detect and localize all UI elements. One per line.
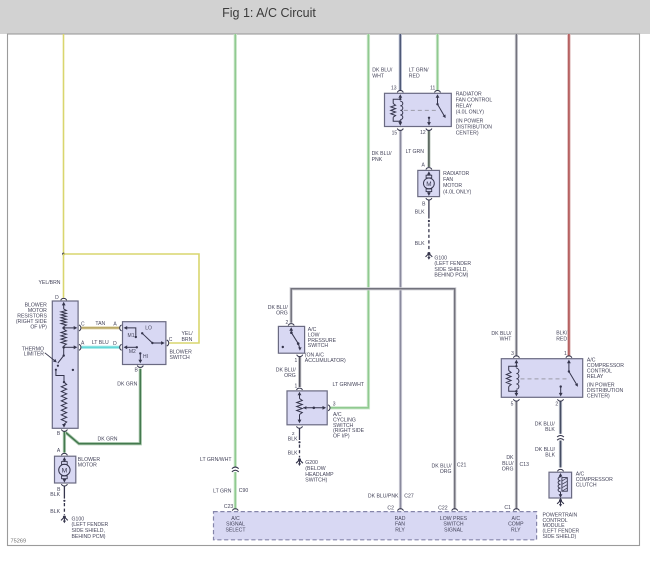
blower motor label [78, 457, 101, 468]
svg-text:MOTOR: MOTOR [78, 463, 97, 469]
svg-text:(IN POWER: (IN POWER [456, 119, 484, 125]
svg-text:3: 3 [333, 401, 336, 407]
compressor relay pin 5 [511, 399, 520, 407]
fan relay coil [391, 98, 403, 126]
svg-text:75269: 75269 [11, 539, 27, 545]
svg-text:PNK: PNK [372, 157, 383, 163]
ground G200 [296, 458, 334, 483]
cycling switch wiper to pin 3 [303, 401, 336, 410]
svg-text:DK GRN: DK GRN [117, 381, 137, 387]
fan relay pin 12 [420, 129, 432, 136]
svg-text:1: 1 [564, 351, 567, 357]
svg-text:RLY: RLY [395, 528, 405, 534]
svg-text:FAN CONTROL: FAN CONTROL [456, 97, 493, 103]
svg-text:ORG: ORG [502, 467, 514, 473]
svg-text:TAN: TAN [95, 321, 105, 327]
svg-text:BEHIND PCM): BEHIND PCM) [434, 273, 468, 279]
A/C compressor clutch label [576, 472, 613, 489]
wire LT GRN relay 12 to fan motor A [406, 131, 429, 167]
svg-text:RADIATOR: RADIATOR [443, 171, 469, 177]
inline connector C90 [200, 457, 248, 495]
A/C compressor clutch (box) [549, 469, 572, 498]
resistor element upper [61, 309, 66, 327]
low pressure switch blade [282, 331, 302, 350]
PCM connector C23 [224, 504, 246, 534]
radiator fan control relay label [456, 91, 493, 136]
cycling switch sensing element [297, 399, 303, 424]
cycling switch pin 1 [297, 388, 303, 398]
resistors terminal B [57, 429, 68, 437]
A/C compressor control relay (box) [501, 359, 582, 398]
svg-text:YEL/BRN: YEL/BRN [39, 280, 61, 286]
svg-text:RELAY: RELAY [456, 104, 473, 110]
svg-text:C22: C22 [438, 506, 448, 512]
svg-text:BLK: BLK [545, 427, 555, 433]
svg-text:LO: LO [145, 326, 152, 332]
compressor relay switch 1-2 [559, 351, 578, 396]
svg-text:2: 2 [555, 401, 558, 407]
thermo limiter [55, 347, 74, 383]
PCM connector C2 [395, 509, 406, 534]
svg-text:11: 11 [430, 86, 435, 92]
low pressure switch pin 2 [286, 320, 295, 332]
wire DK BLU/ORG low pressure 1 to cycling 1 [276, 357, 300, 390]
svg-text:(4.0L ONLY): (4.0L ONLY) [456, 110, 485, 116]
svg-text:Fig 1: A/C Circuit: Fig 1: A/C Circuit [222, 6, 316, 20]
powertrain control module label [543, 512, 580, 540]
svg-text:BLK: BLK [288, 451, 298, 457]
radiator fan motor (box) [418, 162, 440, 196]
wire BLK cycling switch 2 to ground [288, 428, 301, 457]
svg-text:SWITCH): SWITCH) [305, 478, 327, 484]
blower switch (box) [123, 322, 166, 365]
svg-text:DK GRN: DK GRN [98, 437, 118, 443]
svg-text:13: 13 [391, 86, 397, 92]
svg-text:RELAY: RELAY [587, 374, 604, 380]
blower switch terminal A [113, 321, 137, 339]
svg-text:M1: M1 [128, 333, 135, 339]
svg-text:WHT: WHT [372, 74, 385, 80]
svg-text:LT GRN/WHT: LT GRN/WHT [333, 382, 365, 388]
wire DK BLU/BLK compressor relay 2 to clutch [535, 401, 561, 467]
blower motor resistors R (box) [52, 295, 78, 429]
A/C compressor control relay label [587, 358, 624, 400]
PCM connector C1 [508, 509, 524, 534]
ground G100 left [61, 516, 109, 540]
header bar [0, 0, 650, 34]
fan relay switch 11-12 [427, 86, 446, 126]
A/C low pressure switch (box) [278, 326, 304, 353]
svg-text:2: 2 [286, 320, 289, 326]
wire DK BLU/WHT to compressor relay 3 [491, 34, 516, 356]
compressor relay coil [506, 365, 519, 396]
svg-text:M: M [62, 467, 68, 474]
low pressure switch pin 1 [297, 355, 303, 357]
svg-text:C27: C27 [404, 493, 414, 499]
radiator fan motor terminal B [426, 198, 432, 200]
blower switch terminal B [134, 366, 143, 374]
node tap A [62, 344, 81, 350]
svg-text:ORG: ORG [276, 311, 288, 317]
resistor element middle [61, 329, 66, 346]
svg-text:LIMITER: LIMITER [24, 352, 45, 358]
svg-text:5: 5 [511, 401, 514, 407]
blower switch terminal D [113, 341, 138, 355]
blower switch blade LO-HI [138, 326, 164, 364]
svg-text:RED: RED [556, 336, 567, 342]
svg-text:(4.0L ONLY): (4.0L ONLY) [443, 190, 472, 196]
svg-text:CENTER): CENTER) [456, 131, 479, 137]
fan relay actuation dashed line [404, 109, 438, 111]
svg-text:C23: C23 [224, 504, 234, 510]
inline connector on clutch wire [557, 435, 564, 440]
svg-text:C: C [81, 321, 85, 327]
wire YEL/BRN vertical from top [63, 34, 65, 254]
blower motor resistors label [16, 303, 48, 331]
svg-text:M2: M2 [129, 349, 136, 355]
svg-text:OF I/P): OF I/P) [30, 324, 47, 330]
svg-text:RADIATOR: RADIATOR [456, 91, 482, 97]
svg-text:CLUTCH: CLUTCH [576, 483, 597, 489]
svg-text:D: D [55, 295, 59, 301]
wire DK GRN resistors B to blower motor A [63, 431, 66, 452]
wire BLK blower motor B to ground G100 [50, 486, 65, 515]
blower motor (box) [55, 448, 76, 483]
clutch coil [558, 477, 567, 498]
svg-text:BLK: BLK [50, 509, 60, 515]
wire DK GRN resistors B to blower switch B [64, 369, 140, 444]
svg-text:BLK: BLK [50, 492, 60, 498]
svg-text:SELECT: SELECT [226, 528, 247, 534]
svg-text:RLY: RLY [511, 528, 521, 534]
drawing number 75269 [11, 539, 27, 545]
compressor relay pin 3 [511, 351, 519, 366]
compressor relay pin 2 [555, 399, 563, 407]
svg-text:BLK: BLK [415, 209, 425, 215]
svg-text:C90: C90 [239, 488, 249, 494]
svg-text:LT GRN/WHT: LT GRN/WHT [200, 457, 232, 463]
svg-text:BRN: BRN [182, 337, 193, 343]
node junction YEL/BRN [62, 253, 65, 256]
svg-text:SWITCH: SWITCH [170, 355, 191, 361]
svg-text:1: 1 [295, 358, 298, 364]
svg-text:12: 12 [420, 130, 426, 136]
resistor element lower [61, 382, 66, 428]
radiator fan motor label [443, 171, 472, 196]
label YEL/BRN [39, 280, 61, 286]
svg-text:BEHIND PCM): BEHIND PCM) [72, 534, 106, 540]
radiator fan control relay (box) [385, 93, 452, 126]
svg-text:C2: C2 [387, 506, 394, 512]
A/C cycling switch (box) [287, 391, 327, 425]
svg-text:BLK: BLK [545, 453, 555, 459]
wire DK BLU/WHT to fan relay 13 [372, 34, 400, 91]
svg-text:ORG: ORG [284, 373, 296, 379]
svg-text:MOTOR: MOTOR [443, 183, 462, 189]
thermo limiter label [22, 346, 57, 362]
svg-text:C1: C1 [504, 505, 511, 511]
svg-text:M: M [426, 181, 431, 188]
wire BLK/RED to compressor relay 1 [556, 34, 569, 356]
svg-text:C: C [169, 337, 173, 343]
svg-text:OF I/P): OF I/P) [333, 434, 350, 440]
label YEL/BRN at switch [182, 331, 194, 343]
ground below clutch [557, 498, 564, 507]
svg-text:SIDE SHIELD): SIDE SHIELD) [543, 534, 577, 540]
svg-text:BLK: BLK [288, 437, 298, 443]
svg-text:DISTRIBUTION: DISTRIBUTION [456, 125, 493, 131]
blower switch label [170, 349, 193, 360]
svg-text:BLK: BLK [415, 241, 425, 247]
svg-text:LT GRN: LT GRN [213, 489, 232, 495]
svg-text:CENTER): CENTER) [587, 393, 610, 399]
compressor relay actuation dashed line [521, 378, 569, 380]
svg-text:FAN: FAN [443, 177, 453, 183]
wire LT GRN/RED to fan relay 11 [409, 34, 438, 91]
A/C cycling switch label [333, 412, 365, 440]
wire YEL/BRN down to resistors D [63, 254, 65, 298]
A/C low pressure switch label [305, 327, 346, 364]
svg-text:ORG: ORG [440, 469, 452, 475]
ground G100 right [426, 252, 472, 279]
blower motor terminal B [61, 484, 67, 486]
wire YEL/BRN over to blower switch C [64, 254, 200, 343]
blower switch terminal C [167, 337, 173, 346]
svg-text:LT BLU: LT BLU [92, 340, 109, 346]
wire LT BLU resistors A to switch D [81, 340, 119, 347]
svg-text:15: 15 [392, 130, 398, 136]
svg-text:ACCUMULATOR): ACCUMULATOR) [305, 358, 346, 364]
svg-text:DK BLU/PNK: DK BLU/PNK [368, 493, 399, 499]
svg-text:D: D [113, 341, 117, 347]
PCM connector C22 [440, 509, 468, 534]
wire DK BLU/PNK relay 15 to PCM C2 [368, 131, 414, 512]
wire LT GRN/WHT to PCM C23 [234, 34, 237, 509]
fan relay pin 13 [391, 86, 403, 100]
svg-text:SIGNAL: SIGNAL [444, 528, 463, 534]
svg-text:C13: C13 [520, 462, 530, 468]
wire DK BLU/ORG compressor relay 5 to PCM C1 [502, 401, 529, 511]
svg-text:SWITCH: SWITCH [308, 343, 329, 349]
node tap C [62, 325, 81, 331]
svg-text:RED: RED [409, 74, 420, 80]
wire TAN resistors C to switch A [81, 321, 119, 328]
wire DK BLU/ORG low pressure switch 2 over to PCM C22 [268, 289, 467, 512]
powertrain control module PCM (dashed box) [214, 512, 537, 540]
cycling switch pin 2 [297, 426, 303, 428]
svg-text:LT GRN: LT GRN [406, 149, 425, 155]
svg-text:C21: C21 [457, 463, 467, 469]
wire LT GRN/WHT to cycling switch 3 [330, 34, 368, 408]
wire BLK radiator fan motor B to ground G100 [415, 200, 430, 251]
svg-text:HI: HI [143, 354, 148, 360]
svg-text:3: 3 [511, 351, 514, 357]
svg-text:WHT: WHT [500, 337, 513, 343]
fan relay pin 15 [392, 129, 404, 137]
